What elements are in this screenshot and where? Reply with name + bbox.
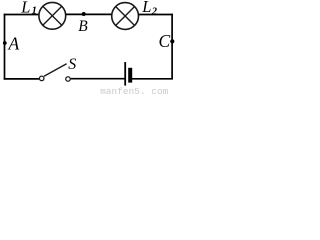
wire right vertical xyxy=(171,14,173,80)
node B xyxy=(82,12,86,16)
wire top-left segment xyxy=(4,14,40,16)
node C xyxy=(170,39,174,43)
battery: short thick plate xyxy=(128,68,132,83)
battery: long thin plate xyxy=(124,62,126,86)
switch S xyxy=(39,64,70,81)
lamp L2 xyxy=(112,3,139,30)
svg-text:A: A xyxy=(8,33,20,53)
lamp L1 xyxy=(39,2,66,29)
svg-text:2: 2 xyxy=(151,6,158,17)
svg-text:L: L xyxy=(141,0,151,16)
svg-text:L: L xyxy=(20,0,30,17)
svg-text:S: S xyxy=(68,56,76,73)
wire bottom-left segment xyxy=(4,78,40,80)
svg-text:manfen5. com: manfen5. com xyxy=(100,86,168,95)
wire switch-to-battery xyxy=(71,78,125,80)
svg-text:1: 1 xyxy=(32,6,37,17)
wire between lamps xyxy=(66,13,112,15)
wire top-right segment xyxy=(138,14,173,16)
wire battery-to-right xyxy=(132,78,173,80)
svg-text:B: B xyxy=(78,18,88,35)
node A xyxy=(3,41,7,45)
svg-text:C: C xyxy=(159,31,171,51)
wire left vertical xyxy=(4,14,6,80)
